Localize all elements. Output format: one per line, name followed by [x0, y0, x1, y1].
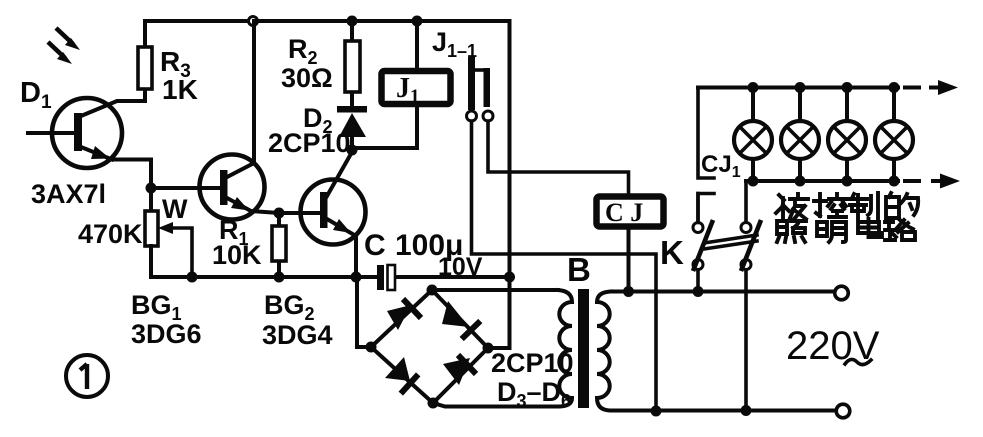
svg-text:30Ω: 30Ω — [281, 63, 333, 93]
diode D5 bottom-left arm — [385, 357, 418, 394]
lamp 3 — [828, 88, 866, 182]
label hanzi DE (controlled text char 4) — [886, 193, 918, 218]
node bridge bottom corner — [428, 398, 439, 409]
wire DC positive riser — [488, 21, 510, 348]
label R2 value 30ohm — [281, 34, 333, 93]
transistor BG1 — [151, 21, 279, 220]
diode D6 bottom-right arm — [443, 355, 476, 385]
lamp 4 — [875, 88, 913, 182]
wire bottom common rail — [151, 275, 377, 279]
wire lamp branch top — [698, 86, 898, 90]
svg-text:B: B — [567, 251, 591, 288]
node W wiper on bottom rail — [187, 272, 198, 283]
lamp 2 — [781, 88, 819, 182]
wire J1-1 right contact to CJ coil — [488, 121, 629, 194]
svg-text:220V: 220V — [786, 324, 880, 368]
svg-text:K: K — [660, 234, 684, 271]
switch K right pole — [741, 181, 761, 411]
label 10V — [438, 253, 483, 281]
node lamp3 top — [842, 82, 853, 93]
label hanzi LU (lighting text char 4) — [885, 220, 915, 240]
label 3DG6 — [131, 319, 202, 349]
label 3DG4 — [262, 320, 333, 350]
node bridge top corner — [427, 285, 438, 296]
label W — [162, 194, 188, 224]
label 220V mains — [786, 324, 880, 368]
diode D2 — [337, 106, 367, 152]
node K left pole on live wire — [693, 286, 704, 297]
transistor BG2 — [279, 152, 366, 277]
label D3-D6 — [497, 377, 571, 411]
node CJ coil on live wire — [623, 286, 634, 297]
switch K mechanical linkage — [704, 235, 757, 249]
wire 220V neutral — [611, 409, 836, 413]
svg-text:470K: 470K — [78, 219, 143, 249]
svg-text:1K: 1K — [162, 74, 198, 105]
node ring junction BG1 collector on top rail — [249, 17, 258, 26]
capacitor C — [377, 265, 395, 290]
label hanzi ZHI (controlled text char 3) — [849, 193, 878, 218]
svg-text:2CP10: 2CP10 — [268, 128, 351, 158]
node BG2 emitter on rail — [351, 272, 362, 283]
label hanzi BEI (controlled text char 1) — [776, 194, 808, 219]
node D1 emitter / W / BG1 base junction — [146, 183, 157, 194]
wire dashed continuation bottom with arrow — [905, 174, 960, 189]
node R2 on top rail — [347, 16, 358, 27]
resistor R3 — [138, 21, 152, 101]
node lamp1 bottom — [748, 176, 759, 187]
label C 100u — [364, 229, 463, 262]
svg-text:3DG6: 3DG6 — [131, 319, 202, 349]
bridge rectifier frame — [357, 277, 558, 407]
contactor contact CJ1 — [698, 88, 714, 223]
node lamp4 top — [889, 82, 900, 93]
node lamp3 bottom — [842, 176, 853, 187]
label 3AX71 — [31, 179, 106, 209]
transformer B secondary winding — [558, 290, 572, 407]
diode D4 top-right arm — [442, 301, 480, 339]
svg-text:C: C — [364, 229, 386, 262]
wire D1 emitter to base node — [112, 160, 151, 212]
svg-text:C J: C J — [605, 198, 643, 227]
label CJ1 — [701, 151, 741, 181]
terminal 220V live — [835, 286, 849, 300]
node K right pole on neutral rail — [741, 405, 752, 416]
potentiometer W 470K — [145, 211, 192, 277]
label 2CP10 (bridge) — [491, 348, 574, 378]
label BG2 — [264, 290, 315, 324]
node J1 coil on top rail — [412, 16, 423, 27]
relay contact J1-1 — [467, 57, 494, 121]
node BG1 emitter / R1 / BG2 base — [274, 208, 285, 219]
terminal 220V neutral — [836, 404, 850, 418]
node capacitor plus on riser — [504, 272, 515, 283]
node bridge left corner — [366, 342, 377, 353]
label 2CP10 (D2) — [268, 128, 351, 158]
wire capacitor to riser — [395, 275, 510, 279]
label hanzi MING (lighting text char 2) — [817, 222, 846, 242]
transformer B core — [578, 289, 589, 408]
node bridge right corner — [483, 343, 494, 354]
svg-text:3AX7l: 3AX7l — [31, 179, 106, 209]
label D1 — [20, 77, 52, 113]
wire dashed continuation top with arrow — [905, 80, 958, 95]
label hanzi KONG (controlled text char 2) — [814, 194, 846, 217]
label B — [567, 251, 591, 288]
transformer B primary winding — [597, 292, 611, 411]
resistor R1 — [272, 213, 286, 277]
svg-text:10V: 10V — [438, 253, 483, 281]
wire top supply rail — [145, 19, 509, 23]
svg-text:10K: 10K — [212, 240, 262, 270]
node lamp2 top — [795, 82, 806, 93]
label D2 — [303, 103, 333, 137]
label 470K — [78, 219, 143, 249]
wire J1-1 left contact to neutral rail — [472, 121, 657, 411]
resistor R2 — [345, 21, 360, 106]
node lamp1 top — [748, 82, 759, 93]
switch K left pole — [693, 194, 714, 293]
wire R3 bottom to D1 collector — [81, 101, 145, 116]
phototransistor D1 — [28, 98, 122, 168]
node R1 bottom on rail — [274, 272, 285, 283]
wire lamp branch bottom — [746, 179, 898, 183]
diode D3 top-left arm — [387, 299, 421, 330]
contactor coil CJ — [597, 197, 664, 293]
label R1 value 10K — [212, 215, 262, 270]
node lamp4 bottom — [889, 176, 900, 187]
label R3 value 1K — [160, 46, 198, 105]
node J1-1 left wire on neutral rail — [651, 406, 662, 417]
label BG1 — [131, 290, 182, 324]
node lamp2 bottom — [795, 176, 806, 187]
figure number 1 in circle — [66, 355, 108, 397]
wire 220V live — [611, 290, 835, 294]
label J1-1 — [432, 27, 477, 61]
svg-text:3DG4: 3DG4 — [262, 320, 333, 350]
label K — [660, 234, 684, 271]
lamp 1 — [734, 88, 772, 182]
svg-text:W: W — [162, 194, 188, 224]
label hanzi ZHAO (lighting text char 1) — [777, 221, 806, 242]
light arrow 2 into D1 — [48, 42, 72, 64]
label hanzi DIAN (lighting text char 3) — [858, 219, 882, 237]
node D2 / J1 coil / BG2 collector — [347, 145, 358, 156]
light arrow 1 into D1 — [56, 28, 80, 50]
relay coil J1 — [352, 21, 451, 148]
